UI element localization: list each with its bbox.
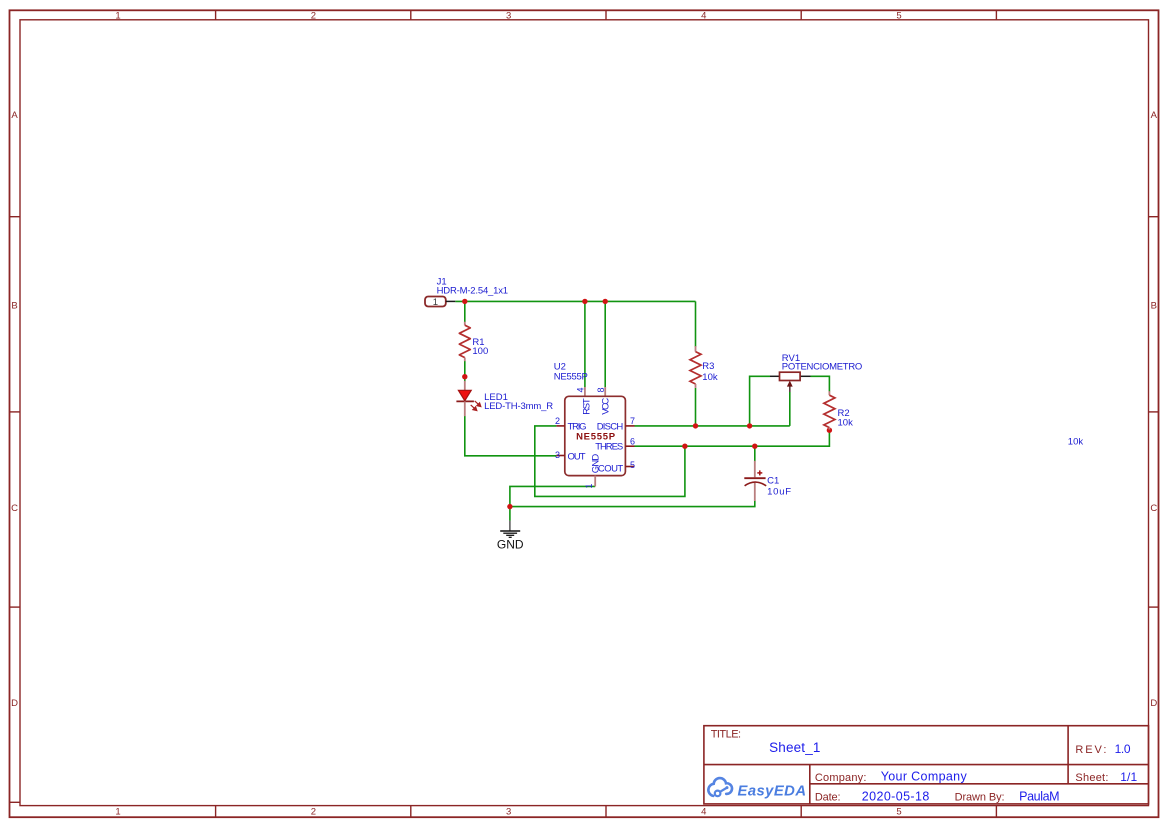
label R2 <box>838 408 854 428</box>
svg-text:1/1: 1/1 <box>1120 770 1137 784</box>
title block <box>704 726 1149 804</box>
svg-text:RST: RST <box>581 398 592 415</box>
svg-text:8: 8 <box>596 387 606 392</box>
svg-text:100: 100 <box>472 346 488 357</box>
wire pin4 branch <box>584 301 586 387</box>
svg-text:3: 3 <box>506 10 511 21</box>
wire THRES net <box>635 430 830 447</box>
resistor R3 <box>690 346 701 388</box>
svg-text:C: C <box>11 503 18 514</box>
svg-text:3: 3 <box>555 450 560 460</box>
wire DISCH net <box>635 425 790 427</box>
U2 pin names <box>568 398 624 475</box>
svg-text:4: 4 <box>701 10 706 21</box>
ground GND <box>497 521 524 552</box>
svg-text:10k: 10k <box>838 417 854 428</box>
svg-text:HDR-M-2.54_1x1: HDR-M-2.54_1x1 <box>437 285 509 296</box>
svg-text:Date:: Date: <box>815 791 841 803</box>
junction C1 top on THRES net <box>752 444 757 449</box>
svg-text:1.0: 1.0 <box>1115 742 1131 756</box>
svg-text:D: D <box>1150 698 1157 709</box>
wire C1 bottom to GND rail <box>510 501 755 507</box>
resistor R1 <box>459 322 470 362</box>
svg-text:COUT: COUT <box>598 464 623 475</box>
svg-text:5: 5 <box>896 806 901 817</box>
svg-text:NE555P: NE555P <box>576 432 616 443</box>
resistor R2 <box>824 391 835 429</box>
wire RV1 wiper leg <box>789 392 791 426</box>
svg-text:1: 1 <box>115 10 120 21</box>
label RV1 <box>782 353 863 373</box>
svg-text:C: C <box>1150 503 1157 514</box>
connector J1 <box>425 297 455 309</box>
label U2 <box>554 362 588 383</box>
wire R1 top branch <box>464 301 466 322</box>
svg-text:5: 5 <box>630 460 635 470</box>
wire pin8 branch <box>604 301 606 387</box>
label R1 <box>472 337 488 357</box>
svg-text:7: 7 <box>630 416 635 426</box>
svg-text:R3: R3 <box>702 361 714 372</box>
IC U2 NE555P <box>556 387 634 486</box>
svg-text:Company:: Company: <box>815 772 867 784</box>
wire C1 top <box>754 446 756 461</box>
junction pin8 on VCC rail <box>603 299 608 304</box>
svg-text:1: 1 <box>584 483 594 488</box>
junction J1/R1/VCC rail <box>462 299 467 304</box>
junction pin4 on VCC rail <box>582 299 587 304</box>
svg-text:LED-TH-3mm_R: LED-TH-3mm_R <box>484 401 553 412</box>
label LED1 <box>484 392 553 412</box>
svg-text:PaulaM: PaulaM <box>1019 789 1060 803</box>
wire LED bottom to OUT <box>465 416 557 456</box>
svg-text:10uF: 10uF <box>767 486 791 497</box>
svg-text:1: 1 <box>115 806 120 817</box>
svg-text:6: 6 <box>630 436 635 446</box>
svg-text:TITLE:: TITLE: <box>711 729 741 741</box>
svg-text:NE555P: NE555P <box>554 372 588 383</box>
junction RV1 left leg on DISCH net <box>747 423 752 428</box>
svg-text:2020-05-18: 2020-05-18 <box>862 789 930 803</box>
svg-text:4: 4 <box>576 387 586 392</box>
svg-text:GND: GND <box>497 537 524 551</box>
junction R1/LED1 <box>462 374 467 379</box>
wire VCC top rail <box>455 300 695 302</box>
svg-text:B: B <box>11 301 17 312</box>
svg-text:Sheet:: Sheet: <box>1075 772 1108 784</box>
svg-text:2: 2 <box>311 806 316 817</box>
wire RV1 left leg <box>750 376 770 426</box>
svg-text:Your Company: Your Company <box>881 770 968 784</box>
svg-text:2: 2 <box>555 416 560 426</box>
svg-text:EasyEDA: EasyEDA <box>738 783 807 799</box>
capacitor C1 <box>744 461 766 501</box>
junction R3 bottom on DISCH net <box>693 423 698 428</box>
svg-text:VCC: VCC <box>601 398 612 415</box>
wire RV1 right to R2 <box>811 376 830 391</box>
label J1 <box>437 277 509 297</box>
svg-text:5: 5 <box>896 10 901 21</box>
LED D1 <box>456 381 480 416</box>
junction R2 bottom <box>827 428 832 433</box>
svg-text:POTENCIOMETRO: POTENCIOMETRO <box>782 361 863 372</box>
svg-text:1: 1 <box>433 297 438 308</box>
svg-text:C1: C1 <box>767 476 779 487</box>
potentiometer RV1 <box>770 372 811 392</box>
svg-text:GND: GND <box>590 454 601 474</box>
svg-text:2: 2 <box>311 10 316 21</box>
svg-text:3: 3 <box>506 806 511 817</box>
junction GND node <box>507 504 512 509</box>
junction THRES/TRIG link <box>682 444 687 449</box>
svg-text:10k: 10k <box>702 372 718 383</box>
svg-text:4: 4 <box>701 806 706 817</box>
wire THRES to TRIG link <box>535 426 685 497</box>
svg-text:D: D <box>11 698 18 709</box>
svg-text:THRES: THRES <box>595 442 623 453</box>
svg-text:OUT: OUT <box>568 451 586 462</box>
svg-text:A: A <box>11 110 18 121</box>
svg-text:Drawn By:: Drawn By: <box>955 791 1005 803</box>
wire GND pin1 <box>510 486 595 520</box>
label C1 <box>767 476 791 498</box>
wire R3 branch <box>695 301 697 347</box>
wire R3 bottom <box>695 388 697 426</box>
wire R1 bottom to LED <box>464 361 466 382</box>
svg-text:10k: 10k <box>1068 436 1084 447</box>
EasyEDA logo <box>708 778 806 799</box>
svg-text:Sheet_1: Sheet_1 <box>769 740 820 755</box>
label R3 <box>702 361 718 383</box>
svg-text:A: A <box>1151 110 1158 121</box>
U2 pin numbers <box>555 387 635 488</box>
svg-text:B: B <box>1151 301 1157 312</box>
